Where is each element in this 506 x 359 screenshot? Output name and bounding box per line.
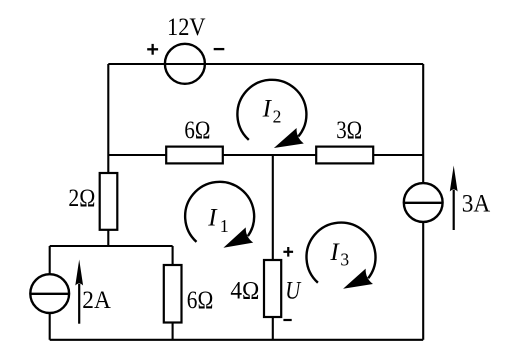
wire subloop right upper <box>172 246 174 266</box>
wire subloop right lower <box>172 322 174 340</box>
svg-text:12V: 12V <box>167 14 206 41</box>
wire left branch (2ohm resistor to subloop top) <box>107 230 109 247</box>
wire subloop left upper <box>49 246 51 275</box>
arrow 3A current direction <box>450 166 458 231</box>
polarity plus of 12V <box>147 44 158 55</box>
wire right branch upper <box>422 64 424 184</box>
polarity plus of U <box>283 247 293 257</box>
mesh current loop I3 arc <box>307 223 376 297</box>
svg-text:2Ω: 2Ω <box>68 185 95 212</box>
wire middle branch upper <box>272 155 274 261</box>
wire bottom bus <box>50 339 424 341</box>
voltage source V1 12V circle <box>165 44 205 84</box>
mesh current loop I2 arc <box>237 80 306 156</box>
resistor R 2ohm box <box>100 173 118 230</box>
wire left branch (top wire to 2ohm resistor) <box>107 64 109 174</box>
wire top bus <box>108 63 423 65</box>
svg-text:3Ω: 3Ω <box>336 117 362 144</box>
arrow 2A current direction <box>75 260 83 324</box>
wire subloop top <box>50 245 173 247</box>
wire right branch lower <box>422 222 424 340</box>
current source 3A circle <box>404 183 443 222</box>
svg-text:2A: 2A <box>82 287 111 314</box>
svg-text:U: U <box>285 277 302 304</box>
mesh current loop I1 arc <box>185 182 254 256</box>
polarity minus of 12V <box>214 48 225 50</box>
resistor R 6ohm bottom box <box>164 265 182 323</box>
svg-text:6Ω: 6Ω <box>184 117 210 144</box>
svg-text:6Ω: 6Ω <box>187 287 214 314</box>
wire middle branch lower <box>272 317 274 340</box>
wire middle bus <box>108 154 423 156</box>
svg-text:3: 3 <box>340 250 349 270</box>
svg-text:4Ω: 4Ω <box>230 277 259 304</box>
resistor R 4ohm box <box>264 260 281 317</box>
wire subloop left lower <box>49 313 51 340</box>
svg-text:3A: 3A <box>462 191 491 218</box>
svg-text:2: 2 <box>273 106 282 126</box>
resistor R 6ohm top box <box>166 147 223 164</box>
resistor R 3ohm box <box>316 147 373 164</box>
current source 2A circle <box>30 274 69 313</box>
svg-text:1: 1 <box>220 216 229 236</box>
polarity minus of U <box>283 319 291 321</box>
